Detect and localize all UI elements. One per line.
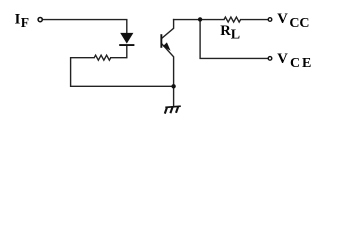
transistor Q1 base bar bbox=[160, 34, 162, 48]
wire ground lead bbox=[173, 86, 175, 106]
terminal IF bbox=[38, 18, 42, 22]
terminal VCC bbox=[268, 18, 272, 22]
resistor RL bbox=[224, 17, 241, 22]
svg-text:F: F bbox=[21, 15, 29, 30]
svg-text:L: L bbox=[231, 28, 240, 43]
diode D (LED) bbox=[119, 33, 134, 46]
svg-text:R: R bbox=[220, 23, 231, 39]
svg-text:CC: CC bbox=[289, 16, 309, 31]
wire RL to VCC terminal bbox=[241, 19, 268, 21]
svg-text:CE: CE bbox=[290, 56, 311, 71]
terminal VCE bbox=[268, 57, 272, 61]
transistor Q1 emitter arrow bbox=[163, 42, 171, 50]
svg-text:V: V bbox=[277, 11, 288, 27]
wire IF terminal to diode anode bbox=[43, 20, 127, 34]
svg-text:I: I bbox=[15, 11, 21, 27]
wire diode cathode to series resistor bbox=[111, 46, 127, 58]
resistor series (input) bbox=[94, 55, 111, 60]
wire top rail to RL bbox=[174, 19, 224, 21]
junction node at collector rail bbox=[198, 17, 202, 21]
ground symbol bbox=[165, 106, 181, 113]
junction node at emitter/ground bbox=[171, 84, 175, 88]
wire resistor to bottom rail to emitter node bbox=[71, 58, 174, 87]
wire collector to top rail bbox=[162, 20, 174, 39]
wire node to VCE terminal bbox=[200, 20, 268, 59]
wire emitter to bottom junction bbox=[162, 44, 174, 87]
svg-text:V: V bbox=[277, 51, 288, 67]
